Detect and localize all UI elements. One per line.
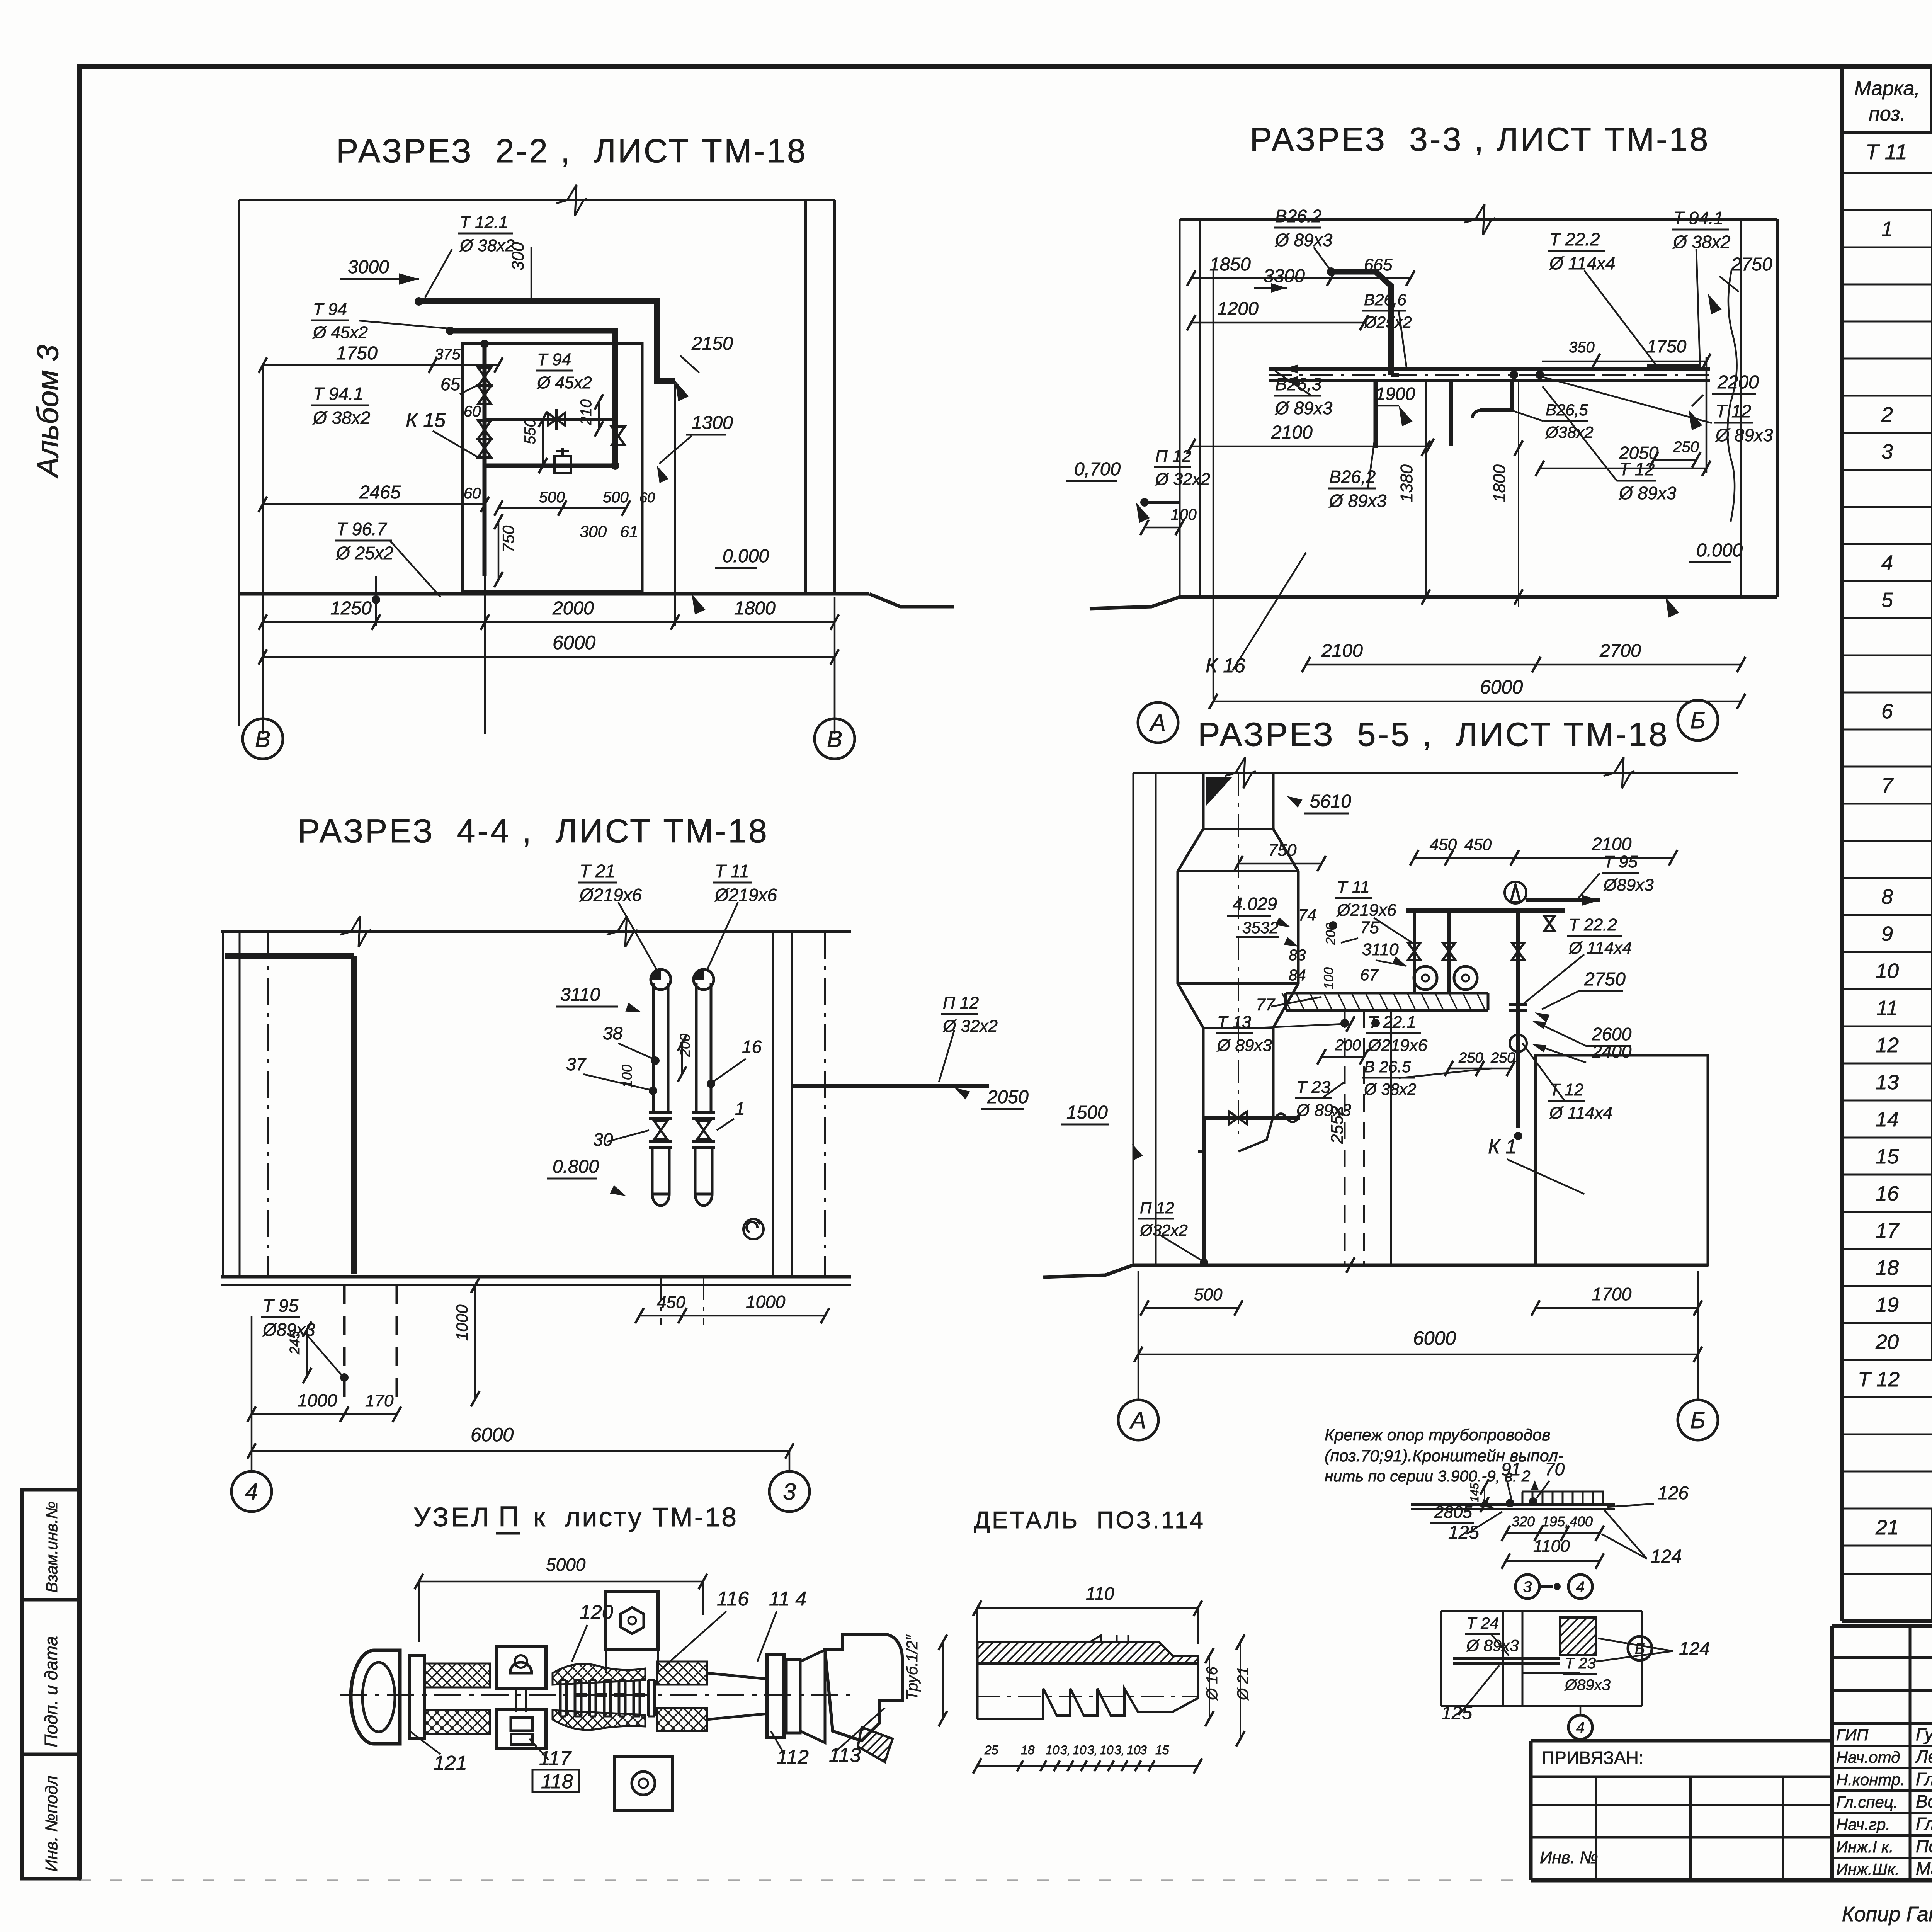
svg-text:В: В: [255, 726, 270, 752]
svg-text:Гладикова: Гладикова: [1916, 1769, 1932, 1789]
svg-text:145: 145: [1468, 1483, 1481, 1502]
svg-text:Волкова: Волкова: [1916, 1791, 1932, 1811]
svg-text:1750: 1750: [336, 343, 378, 364]
svg-text:2100: 2100: [1321, 641, 1363, 661]
svg-text:П 12: П 12: [943, 993, 979, 1012]
svg-text:ДЕТАЛЬ ПОЗ.114: ДЕТАЛЬ ПОЗ.114: [974, 1507, 1205, 1534]
svg-text:6000: 6000: [1480, 676, 1523, 698]
svg-text:4: 4: [1576, 1578, 1585, 1595]
svg-text:Марка,: Марка,: [1854, 77, 1920, 100]
svg-text:1000: 1000: [746, 1292, 786, 1312]
svg-text:Т 94.1: Т 94.1: [313, 384, 363, 404]
svg-text:Ø89х3: Ø89х3: [1603, 876, 1654, 895]
svg-text:5: 5: [1881, 588, 1893, 612]
svg-text:300: 300: [509, 242, 527, 270]
svg-text:Лепендин: Лепендин: [1915, 1747, 1932, 1767]
svg-text:21: 21: [1875, 1516, 1899, 1539]
svg-text:Ø 25х2: Ø 25х2: [335, 543, 393, 563]
svg-text:91: 91: [1501, 1459, 1521, 1479]
svg-text:500: 500: [603, 489, 629, 506]
svg-text:Т 12.1: Т 12.1: [460, 213, 508, 232]
svg-text:1250: 1250: [330, 598, 372, 619]
svg-text:Т 12: Т 12: [1619, 459, 1655, 479]
svg-text:П 12: П 12: [1140, 1199, 1174, 1217]
svg-text:1380: 1380: [1397, 464, 1416, 502]
svg-text:Инж.Шк.: Инж.Шк.: [1836, 1860, 1900, 1878]
svg-text:Ø219х6: Ø219х6: [1336, 901, 1397, 920]
svg-text:К 15: К 15: [406, 409, 446, 432]
svg-text:Ø 38х2: Ø 38х2: [1363, 1080, 1416, 1098]
svg-text:3,: 3,: [1114, 1743, 1125, 1757]
svg-text:350: 350: [1569, 339, 1595, 356]
svg-text:Ø 16: Ø 16: [1204, 1667, 1221, 1701]
svg-text:118: 118: [541, 1770, 573, 1793]
svg-text:120: 120: [580, 1601, 613, 1624]
svg-text:Б: Б: [1690, 707, 1705, 733]
svg-text:10: 10: [1127, 1743, 1141, 1757]
svg-text:13: 13: [1876, 1071, 1899, 1094]
svg-text:4: 4: [245, 1479, 258, 1505]
svg-text:60: 60: [464, 485, 481, 502]
svg-text:2: 2: [1881, 403, 1893, 426]
svg-text:1: 1: [735, 1099, 745, 1119]
svg-text:450: 450: [1464, 835, 1492, 854]
svg-text:5000: 5000: [546, 1554, 586, 1575]
svg-text:ПРИВЯЗАН:: ПРИВЯЗАН:: [1542, 1748, 1644, 1768]
svg-text:126: 126: [1658, 1483, 1689, 1503]
svg-text:14: 14: [1876, 1108, 1899, 1131]
svg-text:2805: 2805: [1434, 1503, 1472, 1522]
svg-text:Ø38х2: Ø38х2: [1545, 423, 1594, 441]
svg-text:450: 450: [657, 1293, 685, 1312]
svg-text:67: 67: [1360, 966, 1379, 984]
svg-text:Ø 45х2: Ø 45х2: [312, 323, 368, 342]
svg-text:Т 13: Т 13: [1217, 1013, 1252, 1032]
svg-text:Взам.инв.№: Взам.инв.№: [43, 1502, 61, 1593]
svg-text:25: 25: [984, 1743, 998, 1757]
svg-text:61: 61: [620, 522, 638, 541]
svg-text:2100: 2100: [1271, 422, 1313, 443]
svg-text:30: 30: [593, 1129, 613, 1150]
svg-text:Н.контр.: Н.контр.: [1836, 1770, 1905, 1789]
svg-text:Т 12: Т 12: [1716, 401, 1751, 421]
svg-text:250: 250: [1490, 1050, 1515, 1066]
svg-text:6000: 6000: [471, 1424, 514, 1446]
svg-text:к листу ТМ-18: к листу ТМ-18: [533, 1502, 738, 1532]
svg-text:Инв. №подл: Инв. №подл: [42, 1776, 61, 1872]
svg-text:2050: 2050: [987, 1087, 1029, 1107]
svg-text:10: 10: [1876, 959, 1899, 983]
svg-text:2750: 2750: [1731, 254, 1772, 275]
svg-text:Т 94: Т 94: [537, 350, 571, 369]
svg-text:П: П: [498, 1500, 519, 1532]
svg-text:0.800: 0.800: [553, 1156, 599, 1177]
svg-text:ГИП: ГИП: [1836, 1726, 1869, 1744]
svg-text:65: 65: [440, 374, 461, 394]
svg-text:Инв. №: Инв. №: [1540, 1848, 1598, 1867]
svg-text:В26.2: В26.2: [1275, 206, 1321, 226]
svg-text:А: А: [1149, 710, 1166, 736]
svg-text:Т 11: Т 11: [1337, 878, 1370, 896]
svg-text:124: 124: [1651, 1546, 1682, 1567]
svg-text:6: 6: [1881, 700, 1893, 723]
svg-text:100: 100: [619, 1065, 635, 1088]
svg-text:84: 84: [1289, 967, 1306, 984]
svg-text:Ø219х6: Ø219х6: [1367, 1036, 1428, 1055]
svg-text:Альбом 3: Альбом 3: [31, 345, 65, 479]
svg-text:Ø 89х3: Ø 89х3: [1216, 1036, 1272, 1055]
svg-text:Крепеж опор трубопроводов: Крепеж опор трубопроводов: [1325, 1426, 1551, 1444]
svg-text:Ø 21: Ø 21: [1235, 1667, 1252, 1701]
svg-text:16: 16: [1876, 1182, 1899, 1205]
svg-text:245: 245: [287, 1331, 303, 1355]
svg-text:Ø 32х2: Ø 32х2: [942, 1017, 998, 1036]
svg-text:РАЗРЕЗ 3-3 , ЛИСТ ТМ-18: РАЗРЕЗ 3-3 , ЛИСТ ТМ-18: [1250, 121, 1710, 158]
svg-text:Ø 89х3: Ø 89х3: [1274, 230, 1333, 250]
svg-text:Копир Ганкова: Копир Ганкова: [1842, 1903, 1932, 1926]
svg-text:Б: Б: [1690, 1407, 1705, 1433]
svg-text:12: 12: [1876, 1034, 1899, 1057]
svg-text:Ø 89х3: Ø 89х3: [1618, 483, 1677, 503]
svg-text:77: 77: [1256, 995, 1275, 1014]
svg-text:0.000: 0.000: [1696, 540, 1743, 561]
svg-text:18: 18: [1021, 1743, 1035, 1757]
svg-text:11 4: 11 4: [769, 1588, 806, 1610]
svg-text:В26,3: В26,3: [1275, 374, 1322, 394]
svg-text:3532: 3532: [1242, 918, 1278, 937]
svg-text:А: А: [1129, 1407, 1146, 1433]
svg-text:74: 74: [1298, 906, 1316, 924]
svg-text:2100: 2100: [1592, 834, 1632, 854]
svg-text:210: 210: [578, 399, 595, 425]
svg-text:Ø 114х4: Ø 114х4: [1568, 939, 1632, 957]
svg-text:Инж.I к.: Инж.I к.: [1836, 1838, 1894, 1856]
svg-text:2465: 2465: [359, 482, 401, 503]
svg-text:Ø 89х3: Ø 89х3: [1328, 491, 1387, 511]
svg-text:Ø 89х3: Ø 89х3: [1466, 1636, 1519, 1655]
svg-text:15: 15: [1155, 1743, 1169, 1757]
svg-text:300: 300: [580, 522, 607, 541]
svg-text:375: 375: [435, 346, 461, 363]
svg-text:500: 500: [539, 489, 565, 506]
svg-text:200: 200: [1323, 923, 1338, 945]
svg-text:17: 17: [1876, 1219, 1900, 1242]
svg-text:Подп. и дата: Подп. и дата: [41, 1636, 61, 1747]
svg-text:60: 60: [639, 490, 655, 505]
svg-text:100: 100: [1321, 967, 1336, 989]
svg-text:400: 400: [1570, 1514, 1593, 1529]
svg-text:1200: 1200: [1217, 299, 1259, 319]
svg-text:Ø219х6: Ø219х6: [714, 885, 777, 905]
svg-text:113: 113: [829, 1744, 861, 1767]
svg-text:6000: 6000: [1413, 1327, 1456, 1349]
svg-text:1700: 1700: [1592, 1284, 1632, 1304]
svg-text:38: 38: [603, 1023, 623, 1043]
svg-text:10: 10: [1073, 1743, 1087, 1757]
svg-text:500: 500: [1194, 1285, 1223, 1304]
svg-text:РАЗРЕЗ 2-2 , ЛИСТ ТМ-18: РАЗРЕЗ 2-2 , ЛИСТ ТМ-18: [336, 133, 808, 170]
svg-text:поз.: поз.: [1869, 103, 1906, 125]
svg-text:Ø219х6: Ø219х6: [579, 885, 642, 905]
svg-text:125: 125: [1448, 1522, 1479, 1543]
svg-text:1: 1: [1881, 218, 1893, 241]
svg-text:20: 20: [1875, 1330, 1899, 1354]
svg-text:10: 10: [1046, 1743, 1060, 1757]
svg-text:2552: 2552: [1328, 1106, 1347, 1144]
svg-text:Т 96.7: Т 96.7: [336, 519, 387, 539]
svg-text:В 26.5: В 26.5: [1364, 1058, 1411, 1076]
svg-text:8: 8: [1881, 885, 1893, 908]
svg-text:320: 320: [1512, 1514, 1535, 1529]
svg-text:665: 665: [1364, 255, 1393, 274]
svg-text:Т 12: Т 12: [1549, 1080, 1583, 1099]
svg-text:Ø 32х2: Ø 32х2: [1155, 470, 1210, 489]
svg-text:Т 22.2: Т 22.2: [1549, 229, 1600, 249]
svg-text:Ø 114х4: Ø 114х4: [1549, 253, 1615, 273]
svg-text:200: 200: [1335, 1037, 1361, 1054]
svg-text:0,700: 0,700: [1074, 459, 1121, 480]
svg-text:Гусева: Гусева: [1916, 1724, 1932, 1744]
svg-text:Ø 89х3: Ø 89х3: [1715, 425, 1773, 445]
svg-text:116: 116: [717, 1588, 749, 1610]
svg-text:1100: 1100: [1533, 1537, 1570, 1556]
svg-text:75: 75: [1360, 918, 1379, 937]
svg-text:Ø 38х2: Ø 38х2: [312, 408, 370, 428]
svg-text:Т 94: Т 94: [313, 300, 347, 319]
svg-text:1750: 1750: [1647, 336, 1687, 356]
svg-text:124: 124: [1679, 1639, 1710, 1659]
svg-text:УЗЕЛ: УЗЕЛ: [413, 1502, 492, 1532]
svg-text:Т 23: Т 23: [1296, 1078, 1331, 1097]
svg-text:В: В: [827, 726, 842, 752]
svg-text:(поз.70;91).Кронштейн выпол-: (поз.70;91).Кронштейн выпол-: [1325, 1447, 1563, 1465]
svg-text:6000: 6000: [553, 632, 595, 653]
svg-text:1500: 1500: [1066, 1102, 1108, 1123]
svg-text:250: 250: [1673, 439, 1699, 456]
svg-text:Ø 45х2: Ø 45х2: [536, 373, 592, 392]
svg-text:11: 11: [1876, 997, 1898, 1020]
svg-text:1800: 1800: [734, 598, 776, 619]
svg-text:РАЗРЕЗ 5-5 , ЛИСТ ТМ-18: РАЗРЕЗ 5-5 , ЛИСТ ТМ-18: [1198, 716, 1669, 753]
svg-text:16: 16: [742, 1037, 762, 1057]
svg-text:Т 95: Т 95: [263, 1296, 298, 1316]
svg-text:7: 7: [1881, 774, 1894, 797]
svg-text:2150: 2150: [691, 333, 733, 354]
svg-text:Т 23: Т 23: [1565, 1655, 1596, 1672]
svg-text:3,: 3,: [1060, 1743, 1071, 1757]
svg-text:1000: 1000: [298, 1390, 337, 1410]
svg-text:Поздеева: Поздеева: [1916, 1836, 1932, 1856]
svg-text:Гладикова: Гладикова: [1916, 1814, 1932, 1834]
svg-text:В26,6: В26,6: [1364, 291, 1406, 309]
svg-text:4: 4: [1881, 551, 1893, 575]
svg-text:Т 95: Т 95: [1604, 852, 1638, 871]
svg-text:2200: 2200: [1717, 372, 1759, 393]
svg-text:П 12: П 12: [1155, 447, 1191, 466]
svg-text:1300: 1300: [692, 413, 733, 433]
svg-text:Ø 114х4: Ø 114х4: [1549, 1104, 1612, 1122]
svg-text:нить по серии 3.900.-9, в. 2: нить по серии 3.900.-9, в. 2: [1325, 1467, 1531, 1485]
svg-text:4.029: 4.029: [1233, 894, 1277, 914]
svg-text:Марухина: Марухина: [1916, 1859, 1932, 1879]
svg-text:2700: 2700: [1599, 641, 1641, 661]
svg-text:19: 19: [1876, 1293, 1899, 1316]
svg-text:1850: 1850: [1209, 254, 1251, 275]
svg-text:Ø 89х3: Ø 89х3: [1274, 398, 1333, 418]
svg-text:0.000: 0.000: [723, 546, 769, 566]
svg-text:5610: 5610: [1310, 791, 1351, 812]
svg-text:70: 70: [1545, 1459, 1565, 1479]
svg-text:18: 18: [1876, 1256, 1899, 1279]
svg-text:2400: 2400: [1592, 1041, 1632, 1061]
svg-text:1000: 1000: [453, 1304, 471, 1341]
svg-text:Гл.спец.: Гл.спец.: [1836, 1793, 1898, 1811]
svg-text:3: 3: [1523, 1578, 1532, 1595]
svg-text:125: 125: [1441, 1703, 1472, 1723]
svg-text:3: 3: [1881, 440, 1893, 463]
svg-text:2000: 2000: [552, 598, 594, 619]
svg-text:9: 9: [1881, 922, 1893, 946]
svg-text:Т 11: Т 11: [1866, 139, 1907, 164]
svg-text:Т 94.1: Т 94.1: [1673, 208, 1723, 228]
svg-text:1800: 1800: [1490, 464, 1509, 502]
svg-text:Нач.отд: Нач.отд: [1836, 1748, 1900, 1766]
svg-text:Ø25х2: Ø25х2: [1363, 313, 1412, 331]
svg-text:Т 21: Т 21: [580, 861, 615, 881]
svg-text:4: 4: [1576, 1719, 1585, 1736]
svg-text:Т 24: Т 24: [1466, 1614, 1499, 1632]
svg-text:195,: 195,: [1542, 1514, 1569, 1529]
svg-text:2750: 2750: [1584, 969, 1626, 990]
svg-text:10: 10: [1100, 1743, 1114, 1757]
svg-text:170: 170: [365, 1391, 394, 1410]
svg-text:1900: 1900: [1376, 384, 1415, 404]
svg-text:3,: 3,: [1087, 1743, 1098, 1757]
svg-text:3000: 3000: [348, 257, 389, 277]
svg-text:117: 117: [539, 1747, 572, 1770]
svg-text:Т 11: Т 11: [715, 861, 749, 881]
svg-text:121: 121: [434, 1752, 467, 1774]
svg-text:3110: 3110: [560, 985, 600, 1005]
svg-text:83: 83: [1289, 947, 1306, 964]
svg-text:Нач.гр.: Нач.гр.: [1836, 1815, 1890, 1833]
svg-text:РАЗРЕЗ 4-4 , ЛИСТ ТМ-18: РАЗРЕЗ 4-4 , ЛИСТ ТМ-18: [298, 813, 769, 850]
svg-text:550: 550: [522, 418, 539, 444]
svg-text:3: 3: [1140, 1743, 1147, 1757]
svg-text:Ø89х3: Ø89х3: [1564, 1677, 1611, 1694]
svg-text:Труб.1/2″: Труб.1/2″: [904, 1634, 921, 1700]
svg-text:60: 60: [464, 403, 481, 420]
svg-text:Т 12: Т 12: [1858, 1368, 1900, 1391]
svg-text:250: 250: [1458, 1050, 1483, 1066]
svg-text:110: 110: [1086, 1583, 1114, 1604]
svg-text:3110: 3110: [1362, 940, 1399, 959]
svg-text:750: 750: [1268, 841, 1297, 860]
svg-text:750: 750: [499, 525, 517, 553]
svg-text:3: 3: [783, 1479, 796, 1505]
svg-text:Т 22.2: Т 22.2: [1569, 915, 1617, 934]
svg-text:К 1: К 1: [1488, 1136, 1517, 1158]
svg-text:Ø 38х2: Ø 38х2: [1672, 232, 1730, 252]
svg-text:15: 15: [1876, 1145, 1899, 1168]
svg-text:Ø 38х2: Ø 38х2: [459, 236, 515, 255]
svg-text:3300: 3300: [1264, 266, 1305, 286]
svg-text:37: 37: [566, 1054, 587, 1074]
